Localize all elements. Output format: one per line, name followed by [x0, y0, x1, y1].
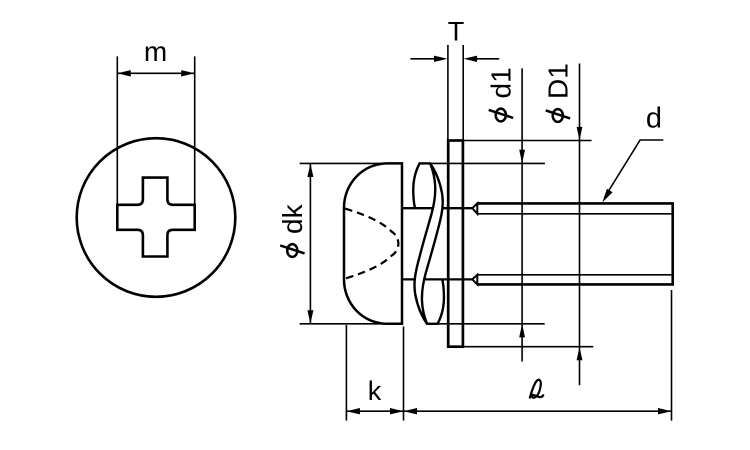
dimension d1 top extension line: [420, 162, 545, 164]
thread minor bottom line: [477, 274, 672, 276]
flat washer: [448, 141, 463, 347]
dimension T right arrow: [475, 58, 499, 60]
label phi D1: [543, 63, 574, 122]
pan head outline: [344, 163, 402, 323]
dimension d1 arrow line: [521, 68, 523, 361]
dimension D1 arrow line: [579, 64, 581, 386]
dimension l arrow line: [404, 410, 672, 412]
spring washer band: [414, 163, 442, 323]
svg-text:m: m: [144, 36, 167, 67]
dimension D1 bottom extension line: [463, 346, 593, 348]
leader d arrowhead: [602, 189, 612, 203]
dimension D1 top arrowhead: [577, 127, 583, 141]
dimension l right extension line: [671, 290, 673, 421]
thread chamfer top triangle: [472, 203, 477, 213]
dimension m right arrowhead: [181, 70, 195, 76]
spring washer top-left arc: [413, 163, 419, 207]
shank blank bottom line: [402, 278, 472, 280]
dimension d1 bottom extension line: [426, 323, 545, 325]
dimension k left arrowhead: [346, 408, 360, 414]
dimension D1 top extension line: [463, 140, 592, 142]
dimension T left extension line: [447, 45, 449, 141]
dimension d1 bottom arrowhead: [519, 324, 525, 338]
svg-text:k: k: [368, 376, 382, 406]
screw head circle (top view): [77, 138, 236, 297]
dimension dk bottom extension line: [300, 323, 388, 325]
spring washer bottom flat: [426, 323, 439, 325]
dimension k right arrowhead: [390, 408, 404, 414]
dimension dk bottom arrowhead: [307, 310, 313, 324]
phillips recess cross: [117, 178, 194, 257]
dimension m right extension line: [194, 56, 196, 204]
leader line for d: [605, 140, 664, 198]
dimension D1 bottom arrowhead: [577, 347, 583, 361]
thread chamfer bottom triangle: [472, 275, 477, 285]
dimension m arrow line: [117, 72, 194, 74]
shank outline: [477, 203, 672, 284]
dimension T right extension line: [462, 45, 464, 141]
dimension dk arrow line: [309, 163, 311, 323]
phillips recess hidden dashed line: [345, 209, 398, 279]
spring washer top flat: [419, 162, 432, 164]
label phi dk: [277, 203, 308, 256]
dimension m left arrowhead: [117, 70, 131, 76]
svg-text:dk: dk: [277, 203, 308, 234]
dimension dk top extension line: [300, 162, 388, 164]
svg-text:D1: D1: [543, 63, 574, 99]
dimension m left extension line: [116, 56, 118, 204]
dimension k left extension line: [345, 325, 347, 421]
dimension k right extension line / l left extension line: [403, 327, 405, 421]
spring washer bottom-right arc: [438, 280, 444, 324]
label l (script ell): [530, 380, 543, 398]
svg-text:d: d: [646, 103, 662, 135]
dimension l left arrowhead: [404, 408, 418, 414]
dimension k arrow line: [346, 410, 403, 412]
label phi d1: [486, 67, 517, 121]
dimension dk top arrowhead: [307, 163, 313, 177]
svg-text:d1: d1: [486, 67, 517, 98]
thread minor top line: [477, 213, 672, 215]
dimension l right arrowhead: [658, 408, 672, 414]
dimension d1 top arrowhead: [519, 150, 525, 164]
shank blank top line: [402, 207, 472, 209]
svg-text:T: T: [448, 16, 465, 46]
dimension T left arrow: [410, 58, 436, 60]
